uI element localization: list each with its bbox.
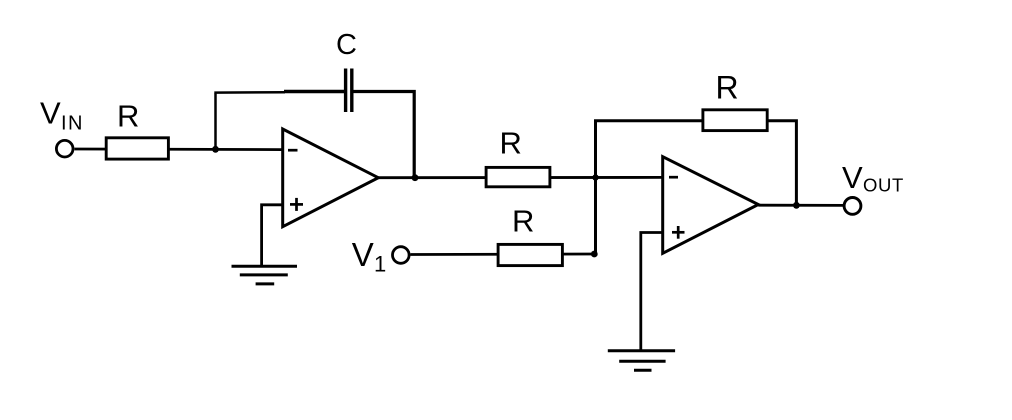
- wire feedback top thick segment to capacitor: [284, 90, 344, 94]
- wire U1 output to R2 and on to U2 inverting input: [378, 176, 662, 179]
- wire U2 output to VOUT: [758, 204, 844, 207]
- svg-text:IN: IN: [61, 112, 84, 134]
- capacitor C: [346, 69, 352, 113]
- svg-text:V: V: [352, 236, 374, 273]
- resistor R3: [498, 244, 562, 265]
- U2 plus sign: [672, 226, 685, 239]
- svg-text:V: V: [40, 96, 61, 131]
- U1 minus sign: [288, 149, 298, 152]
- wire feedback top left segment: [214, 91, 285, 94]
- svg-text:1: 1: [374, 252, 386, 277]
- wire V1 to R3 to node junction: [411, 253, 595, 256]
- label VOUT: [842, 160, 904, 195]
- U1 plus sign: [290, 198, 303, 211]
- op-amp U2: [663, 157, 759, 254]
- wire R4 right down to U2 output: [767, 121, 796, 206]
- terminal V1: [393, 247, 410, 264]
- svg-text:R: R: [716, 70, 739, 106]
- wire VIN to R1 and to op-amp U1 inverting input: [75, 148, 283, 151]
- wire U2 plus input to ground: [641, 233, 663, 351]
- junction dot at V1 corner: [591, 251, 598, 258]
- label VIN: [40, 96, 84, 135]
- svg-text:R: R: [512, 203, 534, 238]
- node A (junction on input wire): [212, 146, 219, 153]
- svg-text:R: R: [117, 98, 139, 133]
- junction dot at U1 output node: [412, 174, 419, 181]
- label V1: [352, 236, 386, 277]
- terminal VOUT: [844, 198, 861, 215]
- svg-text:OUT: OUT: [863, 174, 904, 195]
- resistor R1: [106, 138, 168, 159]
- wire capacitor right to vertical drop: [354, 92, 415, 178]
- svg-text:C: C: [336, 29, 357, 61]
- resistor R2: [486, 167, 550, 186]
- U2 minus sign: [669, 176, 678, 179]
- ground G2: [608, 351, 675, 371]
- ground G1: [232, 266, 298, 284]
- svg-text:V: V: [842, 160, 863, 195]
- wire node A up to feedback: [214, 93, 217, 149]
- wire node B vertical with feedback top run: [596, 121, 703, 254]
- resistor R4 feedback: [703, 110, 767, 131]
- junction dot node B: [592, 174, 598, 180]
- wire U1 plus input to ground: [262, 205, 283, 266]
- svg-text:R: R: [500, 126, 522, 161]
- junction dot at U2 output node: [793, 202, 800, 209]
- terminal VIN: [56, 140, 73, 157]
- op-amp U1: [283, 129, 379, 227]
